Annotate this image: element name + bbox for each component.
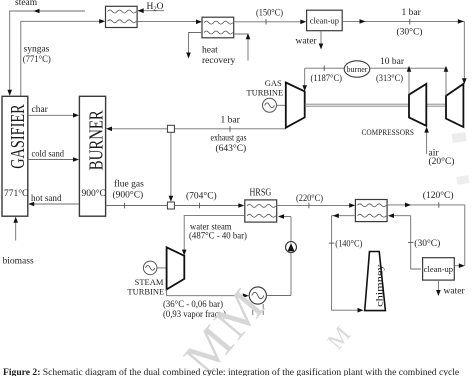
svg-text:flue gas: flue gas bbox=[114, 179, 144, 190]
arrow hot sand into gasifier bbox=[28, 202, 34, 207]
svg-text:(20°C): (20°C) bbox=[429, 156, 455, 167]
wire feedwater into HRSG bbox=[280, 216, 291, 218]
arrow combustion gas into turbine bbox=[302, 85, 307, 91]
svg-text:(643°C): (643°C) bbox=[216, 143, 247, 154]
arrow syngas after clean-up bbox=[360, 19, 366, 24]
component burner oval bbox=[344, 61, 370, 77]
svg-text:1 bar: 1 bar bbox=[221, 116, 241, 126]
svg-text:syngas: syngas bbox=[24, 45, 50, 55]
arrow syngas discharge up bbox=[444, 66, 449, 72]
arrow flue into HRSG bbox=[238, 203, 244, 208]
svg-text:cold sand: cold sand bbox=[32, 150, 65, 160]
svg-text:(704°C): (704°C) bbox=[186, 191, 217, 202]
arrow steam flow left bbox=[34, 9, 40, 14]
tick 1 bar bbox=[409, 19, 411, 25]
svg-text:Figure 2: Schematic diagram of: Figure 2: Schematic diagram of the dual … bbox=[3, 367, 459, 376]
wire shaft turbine-compressor bbox=[305, 104, 409, 106]
arrow syngas into clean-up 1 bbox=[300, 20, 306, 25]
arrow syngas at top-right corner bbox=[458, 19, 464, 24]
svg-text:(30°C): (30°C) bbox=[414, 238, 440, 249]
heat exchanger economizer bbox=[355, 200, 387, 222]
svg-text:burner: burner bbox=[347, 65, 368, 74]
wire biomass feed bbox=[15, 220, 17, 241]
wire flue gas junction to HRSG bbox=[174, 205, 241, 207]
svg-text:(120°C): (120°C) bbox=[423, 190, 454, 201]
pump P1 bbox=[286, 242, 297, 253]
turbine T2 steam turbine bbox=[167, 247, 185, 289]
clean-up unit 1 bbox=[307, 10, 343, 31]
arrow syngas into compressor bbox=[462, 78, 467, 84]
arrow exhaust gas into burner bbox=[106, 127, 112, 132]
chimney bbox=[365, 252, 386, 311]
svg-text:(220°C): (220°C) bbox=[296, 193, 323, 204]
svg-text:(1187°C): (1187°C) bbox=[311, 73, 343, 84]
svg-text:chimney: chimney bbox=[375, 264, 385, 307]
arrow heat recovery water out bbox=[186, 53, 191, 59]
svg-text:(487°C - 40 bar): (487°C - 40 bar) bbox=[189, 230, 247, 241]
tick 140C bbox=[329, 242, 335, 244]
wire turbine exhaust to condenser bbox=[167, 289, 246, 295]
svg-text:1 bar: 1 bar bbox=[402, 8, 422, 18]
svg-text:771°C: 771°C bbox=[4, 188, 28, 199]
wire hot sand return bbox=[31, 203, 79, 205]
wire syngas riser from gasifier bbox=[21, 21, 102, 96]
svg-text:BURNER: BURNER bbox=[86, 110, 107, 170]
arrow steam into gasifier bbox=[7, 90, 12, 96]
wire steam line to gasifier bbox=[10, 11, 85, 92]
wire right drop to clean-up 2 junction bbox=[464, 205, 466, 266]
wire water drain 1 bbox=[320, 31, 322, 47]
svg-text:clean-up: clean-up bbox=[424, 264, 453, 274]
clean-up unit 2 bbox=[423, 258, 455, 280]
node junction square on flue line bbox=[167, 202, 174, 209]
arrow char into burner bbox=[73, 113, 79, 118]
tick exhaust 1 bar bbox=[229, 126, 231, 132]
arrow flue into economizer bbox=[349, 203, 355, 208]
vessel BURNER bbox=[79, 96, 107, 216]
condenser bbox=[249, 287, 266, 315]
wire syngas HX1 to HX2 bbox=[137, 20, 198, 22]
wire flue gas burner to junction bbox=[106, 205, 168, 207]
wire syngas 1 bar line to right edge bbox=[342, 20, 464, 22]
wire char transfer bbox=[28, 114, 76, 116]
svg-text:(150°C): (150°C) bbox=[256, 8, 283, 19]
arrow syngas into HX1 bbox=[99, 19, 105, 24]
wire air compressor discharge riser bbox=[408, 68, 410, 94]
watermark bbox=[173, 132, 470, 376]
arrow exhaust steam into condenser bbox=[243, 293, 249, 298]
svg-text:(900°C): (900°C) bbox=[113, 190, 144, 201]
svg-text:10 bar: 10 bar bbox=[380, 57, 405, 67]
generator G2 (steam turbine) bbox=[143, 261, 166, 275]
arrow H2O into HX1 bbox=[138, 8, 144, 13]
svg-text:HRSG: HRSG bbox=[250, 187, 272, 198]
svg-text:water: water bbox=[444, 286, 466, 296]
arrow cold sand into burner bbox=[73, 157, 79, 162]
arrow steam into turbine bbox=[182, 250, 187, 256]
svg-text:COMPRESSORS: COMPRESSORS bbox=[362, 128, 415, 137]
wire syngas HX2 to clean-up (150°C) bbox=[234, 21, 304, 23]
wire syngas compressor discharge riser bbox=[445, 68, 447, 95]
wire air intake bbox=[426, 130, 428, 155]
tick 150C bbox=[265, 19, 267, 25]
tick 704C bbox=[199, 203, 201, 209]
arrow clean gas to stack line bbox=[459, 263, 465, 268]
wire cold sand transfer bbox=[28, 159, 76, 161]
heat exchanger HX1 (syngas cooler) bbox=[106, 6, 138, 27]
wire H2O feed bbox=[138, 10, 164, 12]
wire burner line down to gas turbine bbox=[304, 68, 306, 88]
svg-text:(30°C): (30°C) bbox=[397, 27, 423, 38]
svg-text:GASIFIER: GASIFIER bbox=[8, 104, 29, 169]
wire pump riser lower bbox=[290, 253, 292, 296]
svg-text:(313°C): (313°C) bbox=[376, 73, 403, 84]
wire clean gas riser (30°C) bbox=[411, 216, 421, 269]
svg-text:900°C: 900°C bbox=[82, 188, 106, 199]
svg-text:biomass: biomass bbox=[3, 257, 34, 267]
tick 30C bbox=[408, 241, 414, 243]
svg-text:hot sand: hot sand bbox=[31, 194, 62, 204]
wire shaft between compressors bbox=[426, 104, 446, 106]
arrow biomass into gasifier bbox=[13, 217, 18, 223]
svg-text:GAS: GAS bbox=[265, 78, 282, 88]
wire clean gas out of clean-up 2 bbox=[454, 265, 461, 267]
wire syngas down to compressor bbox=[463, 21, 465, 81]
svg-text:heat: heat bbox=[202, 46, 218, 56]
wire heat recovery outlet stub (left, down arrow) bbox=[189, 33, 203, 56]
turbine T1 gas turbine bbox=[286, 83, 305, 128]
wire economizer to chimney (140°C) bbox=[332, 216, 361, 311]
node junction square on exhaust line bbox=[167, 125, 174, 132]
vessel GASIFIER bbox=[2, 96, 29, 216]
arrow into flue junction bbox=[169, 196, 174, 202]
arrow air discharge up bbox=[407, 66, 412, 72]
svg-text:TURBINE: TURBINE bbox=[127, 286, 164, 296]
svg-text:char: char bbox=[32, 105, 49, 115]
wire cooled gas return to economizer bbox=[390, 215, 411, 217]
svg-text:recovery: recovery bbox=[202, 56, 235, 66]
arrow syngas into HX2 bbox=[196, 20, 202, 25]
arrow heat recovery water return bbox=[246, 33, 251, 39]
wire condensate to pump bbox=[266, 295, 291, 297]
wire flue economizer outlet (120°C) bbox=[387, 204, 465, 206]
arrow water drain 2 bbox=[436, 290, 441, 296]
tick flue gas bbox=[124, 203, 126, 209]
arrow water drain 1 bbox=[319, 44, 324, 50]
wire junction drop to flue line bbox=[170, 132, 172, 198]
svg-text:exhaust gas: exhaust gas bbox=[211, 134, 247, 144]
svg-text:(140°C): (140°C) bbox=[335, 238, 362, 249]
arrow flue after economizer bbox=[405, 203, 411, 208]
arrow flue toward chimney branch bbox=[333, 213, 339, 218]
tick 1187C bbox=[323, 66, 325, 72]
wire exhaust gas line turbine to burner bbox=[109, 128, 286, 130]
svg-text:steam: steam bbox=[15, 0, 38, 8]
wire flue HRSG to economizer (220°C) bbox=[277, 204, 353, 206]
generator G1 (gas turbine) bbox=[263, 98, 286, 112]
arrow air into compressor bbox=[424, 127, 429, 133]
svg-text:water: water bbox=[296, 37, 318, 47]
tick 220C bbox=[308, 203, 310, 209]
wire water drain 2 bbox=[437, 280, 439, 293]
tick 120C bbox=[438, 202, 440, 208]
svg-text:clean-up: clean-up bbox=[310, 16, 339, 26]
svg-text:TURBINE: TURBINE bbox=[246, 88, 283, 98]
svg-text:(771°C): (771°C) bbox=[23, 54, 51, 65]
wire pump riser upper bbox=[290, 217, 292, 242]
heat exchanger HRSG bbox=[245, 187, 277, 222]
wire heat recovery return stub (right, up arrow) bbox=[234, 34, 248, 61]
compressor K1 (air) bbox=[409, 84, 426, 126]
arrow flue into chimney bbox=[358, 308, 364, 313]
compressor K2 (syngas) bbox=[446, 84, 463, 127]
heat exchanger HX2 heat recovery bbox=[202, 17, 234, 38]
wire water steam HRSG to steam turbine bbox=[184, 216, 245, 253]
arrow feedwater into HRSG bbox=[278, 214, 284, 219]
wire burner feed line (10 bar) bbox=[305, 67, 446, 69]
arrow into economizer right side bbox=[388, 213, 394, 218]
